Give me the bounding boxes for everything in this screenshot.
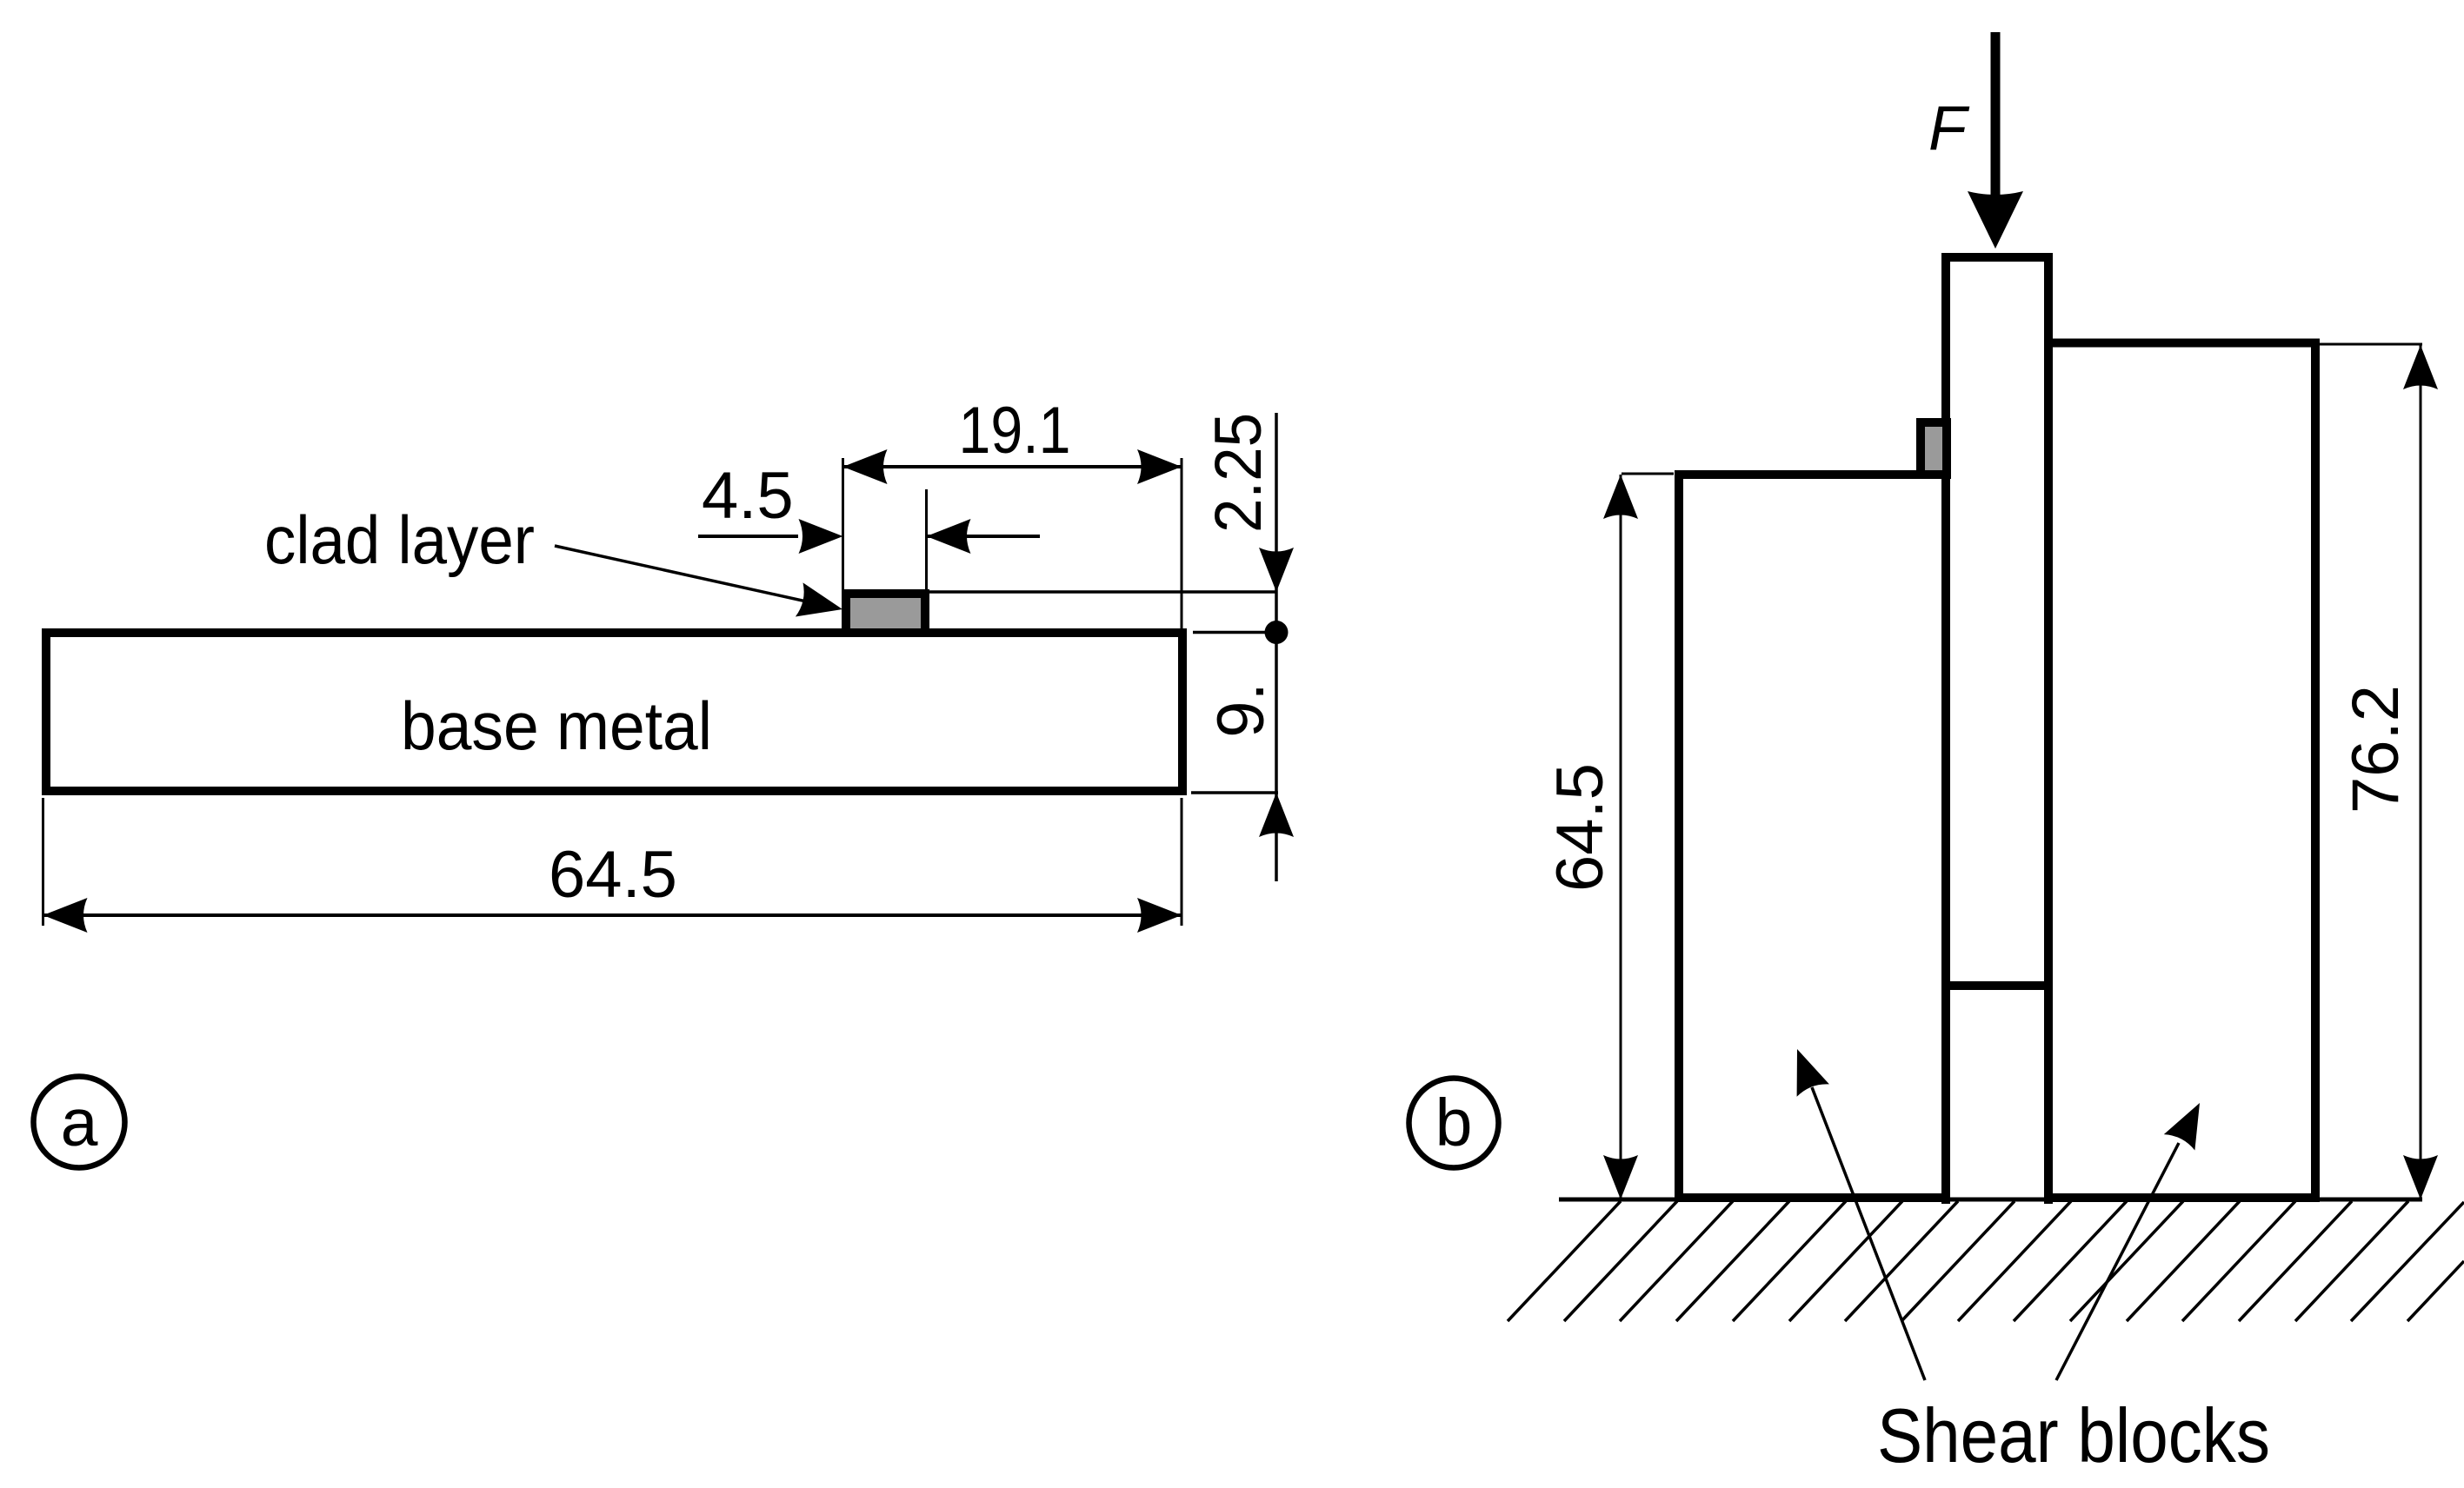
arrow 9. pointing up [1259, 793, 1294, 837]
svg-text:b: b [1435, 1086, 1473, 1160]
right shear block [2048, 343, 2315, 1199]
force F arrow line [1991, 32, 2001, 196]
left shear block [1679, 475, 1946, 1198]
dimension line 76.2 [2420, 345, 2422, 1199]
divider line inside column (specimen bottom) [1941, 981, 2053, 990]
arrow 2.25 pointing down [1259, 548, 1294, 592]
clad layer rectangle [846, 594, 925, 633]
ground line [1559, 1198, 2422, 1202]
extension line base metal right bottom (64.5) [1181, 798, 1183, 926]
svg-text:base metal: base metal [401, 688, 712, 764]
extension line right block top (76.2) [2320, 343, 2422, 346]
leader line from clad layer label to clad rect [555, 546, 826, 606]
extension line base top to 2.25 dimension (with junction dot) [1193, 631, 1276, 634]
dimension line 64.5 (b) [1620, 475, 1622, 1199]
dimension line 4.5 right tail with arrow [927, 535, 1040, 538]
leader to right shear block [2056, 1143, 2179, 1380]
vertical dimension line 2.25 / 9. [1275, 413, 1278, 881]
circle label (b) [1409, 1079, 1499, 1168]
svg-text:Shear blocks: Shear blocks [1877, 1392, 2270, 1478]
force F arrowhead [1968, 191, 2023, 249]
specimen column (no bottom edge) [1946, 257, 2048, 1204]
svg-text:clad layer: clad layer [264, 502, 535, 578]
extension line base metal right edge top (19.1) [1181, 458, 1183, 628]
dimension line 4.5 left tail with arrow [698, 535, 798, 538]
svg-text:76.2: 76.2 [2339, 685, 2413, 814]
svg-text:19.1: 19.1 [959, 394, 1071, 468]
extension line left block top (64.5 b) [1622, 473, 1674, 475]
svg-text:a: a [61, 1086, 98, 1160]
dimension line 19.1 [843, 465, 1182, 468]
extension line base metal left bottom (64.5) [42, 798, 44, 926]
clad layer on specimen (b) [1921, 422, 1947, 475]
dimension line 64.5 [43, 913, 1182, 917]
base metal rectangle [46, 633, 1182, 791]
svg-text:2.25: 2.25 [1202, 413, 1275, 533]
ground hatching [1508, 1201, 2464, 1321]
svg-text:64.5: 64.5 [549, 838, 677, 912]
svg-text:F: F [1928, 94, 1970, 163]
extension line clad top to 2.25 dimension [929, 590, 1276, 594]
leader to left shear block [1812, 1087, 1925, 1380]
circle label (a) [34, 1077, 125, 1168]
junction dot at base metal top level [1265, 621, 1289, 644]
svg-text:64.5: 64.5 [1543, 763, 1617, 892]
extension line clad left edge (19.1/4.5) [842, 458, 844, 591]
leader arrowhead at clad rect [796, 582, 842, 616]
svg-text:9.: 9. [1204, 682, 1278, 737]
extension line clad right edge (4.5) [925, 489, 928, 591]
extension line base bottom to 9. dimension [1191, 791, 1278, 794]
svg-text:4.5: 4.5 [702, 459, 794, 533]
